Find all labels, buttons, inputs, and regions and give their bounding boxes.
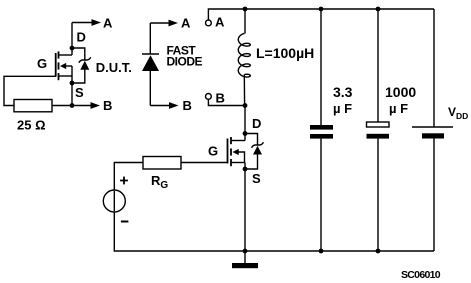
svg-text:3.3: 3.3 bbox=[333, 84, 353, 100]
minus sign bbox=[121, 221, 128, 223]
resistor 25 ohm body bbox=[14, 100, 52, 112]
transistor Q2 gate bar bbox=[227, 139, 229, 164]
pulse generator V1 circle bbox=[103, 190, 125, 212]
svg-text:G: G bbox=[37, 56, 47, 71]
svg-text:µ F: µ F bbox=[333, 101, 352, 116]
ground stem bbox=[244, 251, 246, 263]
diode D2 cathode hooked bar bbox=[252, 142, 264, 147]
wire top rail A to VDD bbox=[208, 9, 434, 20]
wire RG to M2 gate bbox=[181, 162, 228, 164]
svg-text:B: B bbox=[183, 98, 192, 113]
battery VDD short thick plate bbox=[422, 133, 444, 138]
capacitor C2 bottom lead bbox=[377, 139, 379, 251]
node B junction left dot bbox=[70, 103, 75, 108]
fast diode top lead bbox=[149, 23, 151, 54]
arrowhead B left bbox=[91, 102, 101, 109]
battery VDD bottom lead bbox=[433, 139, 435, 252]
svg-text:A: A bbox=[215, 15, 225, 30]
wire terminal B to node bbox=[208, 100, 245, 106]
diode D1 (Q1 body diode) top wire bbox=[72, 48, 85, 61]
svg-text:A: A bbox=[103, 16, 113, 31]
node M1 source dot bbox=[70, 81, 75, 86]
wire M1 gate lead bbox=[4, 76, 56, 105]
wire generator top to RG bbox=[114, 163, 143, 191]
node junction top rail / inductor bbox=[243, 7, 248, 12]
svg-text:S: S bbox=[252, 171, 261, 186]
node bottom rail C1 dot bbox=[319, 249, 324, 254]
svg-text:A: A bbox=[181, 16, 191, 31]
svg-text:B: B bbox=[216, 91, 225, 106]
arrow to A (middle) bbox=[150, 22, 169, 24]
inductor L1 coil bbox=[238, 33, 250, 77]
arrow to B (middle) bbox=[150, 105, 170, 107]
transistor Q2 body arrow bbox=[233, 149, 239, 155]
node top rail C2 dot bbox=[376, 7, 381, 12]
ground bar bbox=[232, 263, 258, 268]
diode D2 (Q2 body diode) top wire bbox=[245, 134, 258, 146]
svg-text:D.U.T.: D.U.T. bbox=[96, 60, 132, 75]
transistor Q1 body arrow bbox=[60, 63, 66, 69]
arrowhead A left bbox=[92, 19, 102, 26]
transistor Q1 bottom channel stub bbox=[59, 75, 72, 77]
svg-text:RG: RG bbox=[151, 173, 168, 191]
svg-text:B: B bbox=[103, 98, 112, 113]
node M1 drain dot bbox=[70, 46, 75, 51]
arrowhead A middle bbox=[169, 20, 179, 27]
diode D1 cathode hooked bar bbox=[79, 57, 91, 62]
wire M2 drain lead bbox=[244, 106, 246, 141]
svg-text:SC06010: SC06010 bbox=[401, 269, 441, 281]
svg-text:D: D bbox=[77, 30, 86, 45]
pulse generator inner line bbox=[113, 191, 115, 211]
arrowhead B middle bbox=[169, 102, 179, 109]
transistor Q1 channel dashes bbox=[58, 51, 60, 80]
wire M1 drain to arrow A corner bbox=[71, 23, 73, 56]
transistor Q2 top channel stub bbox=[232, 140, 245, 142]
node M2 drain dot bbox=[243, 131, 248, 136]
arrow to B (left) bbox=[72, 105, 92, 107]
capacitor C1 bottom plate bbox=[310, 134, 333, 139]
fast diode cathode bar bbox=[142, 53, 159, 55]
svg-text:L=100µH: L=100µH bbox=[256, 45, 314, 61]
svg-text:VDD: VDD bbox=[448, 105, 468, 121]
resistor RG body bbox=[143, 157, 181, 170]
transistor Q2 channel dashes bbox=[230, 137, 232, 166]
plus sign bbox=[120, 177, 128, 185]
diode D2 triangle bbox=[253, 146, 262, 155]
capacitor C2 top plate (hollow, polarized) bbox=[367, 122, 390, 127]
node B junction dot bbox=[243, 103, 248, 108]
diode D1 bottom wire bbox=[72, 70, 85, 84]
node M2 source dot bbox=[243, 167, 248, 172]
transistor Q1 gate bar bbox=[55, 53, 57, 77]
arrow to A (left) bbox=[72, 22, 93, 24]
wire generator bottom to ground rail bbox=[114, 212, 434, 251]
wire inductor top lead bbox=[244, 9, 246, 34]
svg-text:µ F: µ F bbox=[389, 101, 408, 116]
svg-text:D: D bbox=[252, 116, 261, 131]
wire Q1 body line bbox=[65, 65, 73, 67]
svg-text:25 Ω: 25 Ω bbox=[17, 118, 46, 133]
diode D1 triangle bbox=[80, 61, 89, 70]
svg-text:G: G bbox=[208, 144, 218, 159]
node bottom rail C2 dot bbox=[376, 249, 381, 254]
wire M2 source lead to ground rail bbox=[244, 163, 246, 252]
wire M1 source lead bbox=[71, 66, 73, 106]
transistor Q2 bottom channel stub bbox=[232, 162, 245, 164]
capacitor C2 bottom plate bbox=[367, 134, 390, 139]
battery VDD long plate bbox=[412, 126, 453, 128]
capacitor C1 top lead bbox=[320, 9, 322, 125]
wire Q2 body to source bbox=[237, 152, 245, 163]
capacitor C1 top plate bbox=[310, 125, 333, 130]
svg-text:S: S bbox=[75, 85, 84, 100]
svg-text:DIODE: DIODE bbox=[167, 55, 203, 69]
terminal B (open circle) bbox=[206, 94, 212, 100]
terminal A (open circle) bbox=[206, 20, 212, 26]
wire inductor bottom lead bbox=[243, 75, 245, 106]
wire resistor to B node bbox=[52, 105, 72, 107]
diode D2 bottom wire bbox=[245, 154, 258, 169]
transistor Q1 top channel stub bbox=[59, 54, 72, 56]
battery VDD top lead bbox=[433, 9, 435, 127]
svg-text:1000: 1000 bbox=[385, 84, 416, 100]
node top rail C1 dot bbox=[319, 7, 324, 12]
fast diode triangle bbox=[142, 55, 159, 71]
node ground junction dot bbox=[243, 249, 248, 254]
fast diode bottom lead bbox=[149, 71, 151, 106]
capacitor C1 bottom lead bbox=[320, 139, 322, 251]
capacitor C2 top lead bbox=[377, 9, 379, 122]
